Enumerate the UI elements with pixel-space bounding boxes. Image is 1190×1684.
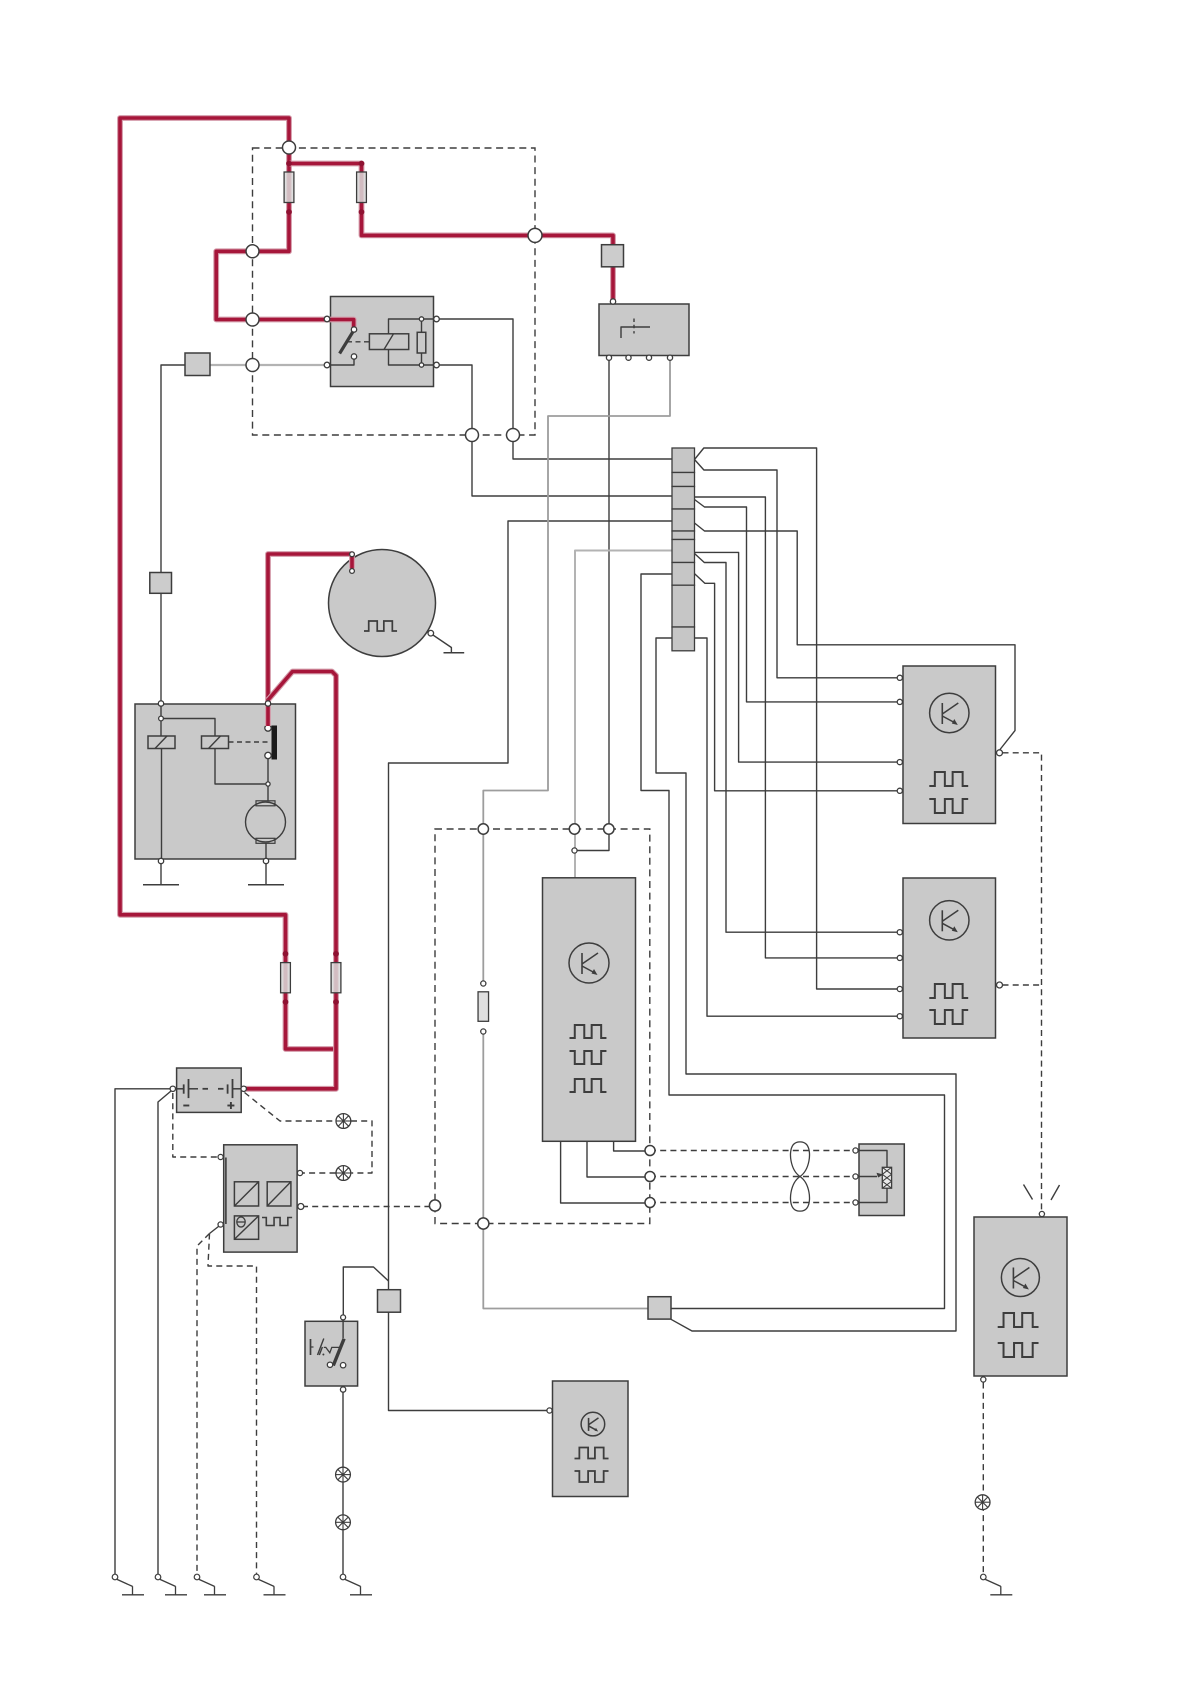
- fuse F5 terminals: [481, 981, 486, 986]
- dashed lamp L1 to lamp L2: [351, 1121, 372, 1173]
- unit K waveform 1: [575, 1448, 609, 1459]
- solid stub regulator lower pin: [210, 1225, 222, 1234]
- wire battery minus to ground 2: [158, 1090, 173, 1575]
- fan symbol: [790, 1142, 809, 1211]
- fuse F1: [284, 172, 294, 203]
- relay K1 coil: [369, 334, 408, 350]
- wire white fuse F5 to connector C5: [483, 1032, 648, 1309]
- junction harness right 2: [645, 1172, 655, 1182]
- red wire battery feed main run: [120, 118, 354, 1049]
- dashed harness to solenoid pin2: [650, 1176, 854, 1178]
- ignition unit body: [599, 304, 689, 356]
- module A contact bar: [272, 726, 278, 760]
- module A relay coil 2: [202, 736, 229, 749]
- ground G6: [981, 1574, 987, 1580]
- unit K transistor symbol: [581, 1412, 605, 1436]
- battery terminals: [170, 1086, 175, 1091]
- wire strip seg4 right to module A right pin: [695, 523, 1016, 750]
- module A coil feed wiring: [160, 704, 162, 736]
- wire strip seg9 left loop to connector C5 corner: [656, 638, 956, 1331]
- central unit waveform 1: [570, 1025, 607, 1038]
- red wire switch contact drop in relay K1: [351, 318, 357, 328]
- relay K1 blade link dashed: [347, 341, 369, 343]
- dashed regulator to ground 4: [208, 1234, 257, 1575]
- regulator diode square 2: [267, 1182, 291, 1206]
- brake switch icon bar: [310, 1339, 312, 1355]
- fuse F5: [478, 992, 489, 1022]
- module A dashed actuator link: [229, 741, 269, 743]
- module C top pin: [1039, 1211, 1044, 1216]
- junction fuse box left 2: [246, 313, 259, 326]
- regulator temp square: [234, 1216, 258, 1239]
- dashed harness to solenoid pin1: [650, 1150, 854, 1152]
- solenoid pins: [853, 1148, 858, 1153]
- junction fuse box left 1: [246, 245, 259, 258]
- indicator lamp L3: [336, 1467, 351, 1482]
- module A waveform 1: [929, 772, 968, 786]
- indicator lamp L5: [975, 1495, 990, 1510]
- red wire sensor feed from control module A: [268, 554, 352, 704]
- junction fuse box top: [283, 141, 296, 154]
- regulator inner bus: [225, 1158, 227, 1225]
- ignition unit bottom pins: [606, 355, 611, 360]
- brake switch icon A-mark: [318, 1339, 324, 1356]
- relay K1 switch contacts: [351, 327, 356, 332]
- dashed battery plus to warning lamp L1: [245, 1093, 336, 1122]
- ground G5: [340, 1574, 346, 1580]
- wire branch to brake switch: [343, 1267, 388, 1319]
- red wire battery branch to module A pin: [246, 672, 337, 1089]
- fuse F3: [281, 963, 291, 993]
- ignition unit top pin: [610, 299, 615, 304]
- relay K1 switch blade: [340, 330, 354, 354]
- module B waveform 1: [929, 984, 968, 998]
- ground G3: [194, 1574, 200, 1580]
- brake switch body: [305, 1321, 358, 1386]
- regulator diode square 1: [234, 1182, 258, 1206]
- junction harness top 1: [478, 824, 488, 834]
- solenoid coil body: [882, 1167, 891, 1188]
- junction fuse box bottom 1: [466, 429, 479, 442]
- battery plates: [175, 1088, 184, 1090]
- junction fuse box bottom 2: [507, 429, 520, 442]
- module C waveform 2: [998, 1343, 1039, 1357]
- wire strip seg1 upper to module B pin3: [695, 448, 901, 989]
- red node fuse F2 top: [359, 161, 365, 167]
- module B transistor symbol: [930, 901, 969, 940]
- module A node: [266, 782, 270, 786]
- red node fuse F3 bottom: [283, 999, 289, 1005]
- dashed harness to solenoid pin3: [650, 1202, 854, 1204]
- red wire stub into sensor: [349, 554, 355, 569]
- dashed main harness boundary: [435, 829, 650, 1224]
- pulse sensor ground: [433, 635, 451, 653]
- brake switch icon wave: [324, 1347, 339, 1352]
- brake switch pins: [341, 1315, 346, 1320]
- red wire inside relay K1: [330, 320, 354, 328]
- module A coil1 to ground wire: [161, 749, 163, 861]
- module A junction circle: [159, 716, 164, 721]
- module A ground right: [265, 864, 267, 885]
- module A ground left: [160, 864, 162, 885]
- dashed battery minus to regulator pin: [173, 1093, 220, 1157]
- dashed regulator to ground 3: [197, 1234, 210, 1575]
- solenoid wiring: [856, 1151, 887, 1168]
- module B waveform 2: [929, 1010, 968, 1024]
- dashed module A right pin to module C: [1003, 753, 1042, 1211]
- regulator theta symbol: [237, 1217, 245, 1227]
- relay K1 rail nodes: [419, 317, 423, 321]
- wire connector C4 to unit K pin: [389, 1312, 550, 1411]
- ground G1: [112, 1574, 118, 1580]
- wire strip seg7 left loop to connector C5: [641, 574, 945, 1309]
- module B left pins: [897, 930, 902, 935]
- ground G4: [254, 1574, 260, 1580]
- module A waveform 2: [929, 799, 968, 813]
- junction harness right 1: [645, 1146, 655, 1156]
- pulse sensor waveform: [364, 621, 397, 631]
- junction fuse box left 3: [246, 359, 259, 372]
- module C bottom pin: [981, 1377, 986, 1382]
- ground G2: [155, 1574, 161, 1580]
- relay K1 coil top rail: [389, 319, 437, 334]
- module C body (right lower): [974, 1217, 1067, 1376]
- relay K1 contact to pin86: [327, 359, 354, 365]
- relay K1 resistor: [417, 332, 426, 353]
- connector C2: [150, 573, 172, 594]
- wire white strip seg6 to control unit top pin: [575, 551, 673, 878]
- fuse F2: [357, 172, 367, 203]
- wire strip seg6 upper to module A pin3: [695, 552, 901, 762]
- junction harness bottom: [478, 1218, 489, 1229]
- module A pins: [158, 701, 163, 706]
- fuse F4: [331, 963, 341, 993]
- connector C1: [185, 353, 210, 376]
- wire white ignition unit pin4 to fuse F5: [483, 358, 670, 984]
- relay K1 resistor stubs: [421, 319, 423, 332]
- regulator pins: [218, 1154, 223, 1159]
- connector C4: [378, 1290, 401, 1313]
- dashed regulator output to harness junction: [302, 1206, 432, 1208]
- red node fuse F1 top: [286, 161, 292, 167]
- warning lamp L2: [336, 1166, 351, 1181]
- connector C5: [648, 1297, 671, 1319]
- module C waveform 1: [998, 1313, 1039, 1327]
- module C transistor symbol: [1001, 1259, 1039, 1297]
- pulse sensor body: [329, 550, 436, 657]
- module B right pin: [997, 982, 1003, 988]
- red wire inside control module A: [265, 704, 271, 726]
- wire control unit pin C to harness junction: [614, 1141, 648, 1151]
- regulator waveform: [262, 1218, 292, 1226]
- wire connector C2 down to control module A: [160, 593, 162, 702]
- unit K body (bottom middle): [553, 1381, 629, 1497]
- red node fuse F4 bottom: [333, 999, 339, 1005]
- red node fuse F1 bottom: [286, 209, 292, 215]
- brake switch top stub: [342, 1319, 344, 1338]
- relay K1 coil bottom rail: [389, 350, 437, 366]
- central unit transistor symbol: [569, 943, 609, 983]
- dashed module C to ground 6: [982, 1383, 984, 1575]
- pulse sensor terminals: [350, 552, 355, 557]
- indicator lamp L4: [336, 1515, 351, 1530]
- brake switch blade: [333, 1339, 344, 1366]
- central unit waveform 3: [570, 1079, 607, 1092]
- brake switch contacts: [327, 1362, 332, 1367]
- unit K waveform 2: [575, 1471, 609, 1482]
- relay K1 pins: [324, 316, 330, 322]
- solenoid arrow feed: [856, 1176, 877, 1178]
- module C antenna marks: [1024, 1185, 1033, 1200]
- red wire fuse F2 branch to ignition unit: [289, 164, 613, 301]
- wire ignition unit pin1 to node above control unit: [577, 358, 609, 851]
- central unit node above: [572, 848, 577, 853]
- unit K left pin: [547, 1408, 552, 1413]
- red node fuse F3 top: [283, 951, 289, 957]
- wire ignition switch lamp chain: [342, 1367, 344, 1575]
- wire strip seg4 to switch and connector C4: [389, 521, 674, 1291]
- wire strip seg7 right to module A pin4: [695, 574, 901, 791]
- junction harness left: [429, 1200, 440, 1211]
- wire strip seg1 lower to module A pin1: [695, 460, 901, 678]
- solenoid valve body: [859, 1144, 904, 1216]
- relay K1 body: [331, 297, 434, 387]
- module A relay coil 1: [148, 736, 175, 749]
- battery body: [177, 1068, 242, 1112]
- wire strip seg6 lower to module B pin1: [695, 554, 901, 933]
- red node fuse F2 bottom: [359, 209, 365, 215]
- junction harness right 3: [645, 1198, 655, 1208]
- junction fuse box right: [528, 228, 542, 242]
- module A left pins: [897, 675, 902, 680]
- wire strip seg9 right to module B pin4: [695, 638, 901, 1016]
- warning lamp L1: [336, 1114, 351, 1129]
- wire control unit pin B to harness junction: [587, 1141, 648, 1177]
- dashed lamp L2 to regulator pin: [302, 1172, 336, 1174]
- battery polarity labels: [183, 1105, 189, 1107]
- red node fuse F4 top: [333, 951, 339, 957]
- dashed module B right pin stub: [1003, 984, 1041, 986]
- wire relay K1 pin87 to fuse strip seg1: [437, 319, 674, 459]
- wire control unit pin A to harness junction: [561, 1141, 648, 1203]
- junction harness top 3: [604, 824, 614, 834]
- harness connector strip: [672, 448, 695, 651]
- wire battery minus to left ground run: [115, 1089, 173, 1575]
- wire connector C1 to junction box relay feed: [161, 365, 185, 573]
- module A contacts: [265, 725, 271, 731]
- voltage regulator body: [224, 1145, 297, 1252]
- central unit waveform 2: [570, 1051, 607, 1064]
- module A transistor symbol: [930, 693, 969, 732]
- dashed fuse box boundary: [253, 148, 536, 435]
- wire white relay K1 pin86 to connector C1: [210, 364, 327, 366]
- control module A body: [135, 704, 296, 859]
- module B body (right middle): [903, 878, 996, 1038]
- connector C3: [602, 245, 624, 267]
- wire strip seg3 upper to module B pin2: [695, 497, 901, 958]
- relay K1 coil diagonal: [384, 334, 394, 350]
- ignition unit icon: [621, 327, 650, 338]
- module A coil2 lower wire: [267, 758, 269, 801]
- module A motor: [246, 802, 286, 842]
- module A body (right upper): [903, 666, 996, 824]
- red wire inside module A to contact: [265, 704, 271, 726]
- junction harness top 2: [569, 824, 579, 834]
- wire strip seg3 lower to module A pin2: [695, 500, 901, 702]
- module A right pin: [997, 750, 1003, 756]
- wire relay K1 pin85 to strip seg3: [437, 365, 674, 496]
- central control unit body: [543, 878, 636, 1142]
